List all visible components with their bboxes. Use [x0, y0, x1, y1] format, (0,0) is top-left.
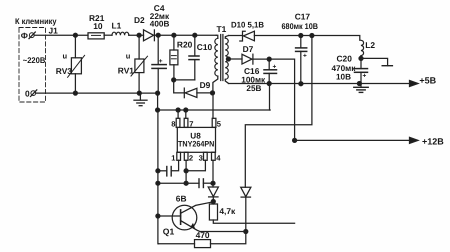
capacitor C16 100мк 25В	[264, 59, 277, 83]
svg-text:L1: L1	[112, 21, 122, 31]
wire: left bus vertical x=158 from source rail down to 470	[157, 110, 160, 244]
wire R21 to L1	[104, 34, 112, 36]
wire: base to left bus	[158, 215, 181, 217]
zener D10 5,1В	[240, 31, 255, 41]
capacitor BP (pin1 bypass)	[158, 167, 171, 176]
capacitor EN (wire B inline)	[199, 179, 213, 188]
wire: pin4 lead down	[212, 160, 214, 187]
terminal Ф (phase pin of J1)	[21, 31, 36, 41]
wire: top input rail y=35.3 from terminal to R21	[34, 34, 88, 36]
svg-text:+5В: +5В	[419, 75, 436, 85]
varistor RV3	[68, 35, 85, 93]
svg-text:D10 5,1В: D10 5,1В	[231, 21, 264, 30]
svg-text:D7: D7	[243, 44, 254, 54]
svg-text:RV3: RV3	[56, 66, 72, 76]
wire: 10V rail from D10 to L2 corner	[254, 36, 359, 41]
node: pin2 bottom on wire B	[184, 181, 188, 185]
svg-text:8: 8	[171, 120, 175, 129]
connector dashed box К клемнику	[19, 28, 46, 103]
wire: C16 bottom node down to source rail corner	[269, 84, 272, 111]
wire: pin 8 lead	[177, 110, 179, 118]
svg-text:D9: D9	[200, 80, 211, 90]
node: RV3 top tap on input rail	[73, 33, 77, 37]
node: emitter / diode / 470 junction	[244, 230, 248, 234]
wire D2 to primary top of T1	[154, 34, 216, 36]
terminal 0 (neutral pin of J1)	[25, 89, 37, 99]
node: C16 bottom on common rail	[267, 82, 271, 86]
svg-text:470мк: 470мк	[332, 64, 357, 73]
inductor L1	[112, 32, 129, 35]
svg-text:C16: C16	[244, 66, 260, 76]
wire: clamp node down to D9 cathode	[174, 80, 185, 93]
svg-text:R20: R20	[177, 39, 193, 49]
svg-text:Q1: Q1	[163, 226, 175, 236]
diode D9	[184, 88, 212, 98]
capacitor C17 680мк 10В	[296, 36, 307, 84]
svg-text:7: 7	[189, 120, 193, 129]
svg-text:10: 10	[93, 21, 103, 31]
svg-text:T1: T1	[217, 24, 227, 34]
svg-text:C17: C17	[295, 11, 311, 21]
svg-text:2: 2	[189, 154, 193, 163]
wire: C4 bottom node down to source rail	[157, 93, 159, 110]
svg-text:L2: L2	[365, 40, 375, 50]
svg-text:680мк 10В: 680мк 10В	[282, 22, 319, 31]
wire L1 to D2	[129, 34, 144, 36]
capacitor C4 22мк 400В	[152, 35, 166, 93]
diode D2	[144, 30, 155, 41]
node: +12V takeoff on D7 feed	[293, 138, 297, 142]
wire: pin2 lead down through taps	[185, 160, 187, 183]
node: R20 top tap	[172, 33, 176, 37]
node: RV3 bottom tap	[73, 91, 77, 95]
node: secondary center tap	[226, 57, 230, 61]
wire: secondary tap to D7	[228, 58, 242, 60]
node: left vertical joins source rail	[156, 108, 160, 112]
node: feedback branch tap on 10V rail	[310, 34, 314, 38]
transformer T1	[213, 35, 229, 93]
inductor L2	[361, 40, 364, 58]
svg-text:C10: C10	[197, 42, 213, 52]
svg-text:+: +	[363, 73, 367, 80]
arrow +5В output	[410, 81, 419, 87]
capacitor C20 470мк 10В	[355, 58, 368, 83]
wire: pin 7 lead	[185, 110, 187, 118]
node: C4 top tap	[156, 33, 160, 37]
wire: drain vertical to pin 5	[212, 93, 214, 118]
node: C16 top tap	[267, 57, 271, 61]
svg-text:+: +	[303, 52, 307, 59]
wire: pin3 lead to pin2 vertical	[186, 160, 205, 171]
wire B: left bus to EN cap	[158, 182, 199, 184]
svg-text:C20: C20	[337, 54, 353, 64]
zener 6В (vertical)	[208, 187, 218, 202]
wire: stub with chassis bar right of L2	[361, 58, 392, 65]
wire: D7 cathode to +12V feed corner	[253, 59, 295, 140]
svg-text:400В: 400В	[150, 20, 170, 29]
arrow +12В output	[410, 137, 419, 143]
wire: feedback branch from 10V rail down and left	[245, 36, 312, 188]
svg-text:3: 3	[199, 154, 203, 163]
ground (secondary common)	[354, 84, 368, 93]
node: C20 bottom / ground on common rail	[357, 82, 361, 86]
svg-text:0: 0	[25, 89, 30, 99]
svg-text:u: u	[63, 52, 68, 61]
wire: source rail y=110	[158, 109, 270, 111]
resistor R20	[170, 35, 178, 80]
ground (primary DC minus)	[134, 93, 147, 106]
svg-text:470: 470	[196, 230, 210, 240]
svg-text:25В: 25В	[246, 84, 261, 93]
node: clamp RC bottom	[172, 78, 176, 82]
node: C4 bottom joins neutral rail	[156, 91, 160, 95]
svg-text:6В: 6В	[176, 194, 187, 204]
node: base tap on left bus	[156, 214, 160, 218]
svg-text:+: +	[273, 64, 277, 71]
resistor 4,7к	[209, 202, 294, 224]
svg-text:TNY264PN: TNY264PN	[178, 140, 214, 149]
node: C10 top tap	[193, 33, 197, 37]
svg-text:Ф: Ф	[21, 31, 28, 41]
wire: pin1 lead down to BP cap wire	[172, 160, 179, 171]
op IC U8 TNY264PN body	[176, 118, 216, 160]
svg-text:J1: J1	[49, 26, 59, 36]
node: pin 8 tap	[176, 108, 180, 112]
resistor R21 (fusible)	[88, 33, 104, 39]
node: pin2/pin3 wire tap	[184, 169, 188, 173]
diode D7	[242, 54, 253, 64]
capacitor C10	[189, 35, 199, 80]
wire: R20/C10 bottom join y=79.9	[174, 79, 195, 81]
diode feedback (vertical, to 470)	[241, 187, 251, 231]
resistor 470	[159, 232, 246, 248]
svg-text:4,7к: 4,7к	[219, 206, 236, 216]
node: wire B on left bus	[156, 181, 160, 185]
wire: secondary common rail y=83.5 to +5V arrow	[229, 83, 411, 85]
svg-text:~220В: ~220В	[23, 56, 46, 65]
wire: bottom input rail y=93.2 from terminal 0 to C4 bottom	[36, 92, 158, 94]
svg-text:RV1: RV1	[118, 66, 134, 76]
transistor Q1	[172, 202, 246, 232]
svg-text:D2: D2	[134, 15, 145, 25]
node: pin4 / EN cap / zener top	[211, 181, 215, 185]
node: drain node (primary bottom / D9 / pin5)	[211, 91, 215, 95]
node: C17 top tap	[299, 34, 303, 38]
node: BP cap on left bus	[156, 169, 160, 173]
node: L2 bottom / C20 top	[359, 56, 363, 60]
node: pin 7 tap	[184, 108, 188, 112]
svg-text:+: +	[159, 58, 163, 65]
wire: +12V line	[295, 139, 411, 141]
svg-text:u: u	[126, 51, 131, 60]
wire: secondary top to D10	[229, 35, 243, 37]
node: C17 bottom on common rail	[299, 82, 303, 86]
varistor RV1	[131, 35, 148, 93]
node: zener bottom / Q1 collector / 4.7k top	[211, 200, 215, 204]
node: RV1 top tap	[137, 33, 141, 37]
svg-text:10В: 10В	[336, 73, 351, 82]
node: RV1 bottom / ground tap	[137, 91, 141, 95]
svg-text:+12В: +12В	[422, 137, 444, 147]
